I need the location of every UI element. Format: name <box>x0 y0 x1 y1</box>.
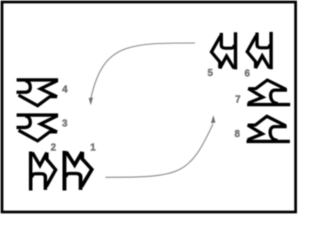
glyph 3 (pointing down) <box>16 115 58 141</box>
svg-text:2: 2 <box>51 143 57 154</box>
arrowhead up <box>211 115 216 123</box>
arrow top: from right tail curving down-left <box>91 43 195 98</box>
svg-text:7: 7 <box>235 94 241 105</box>
svg-text:1: 1 <box>90 143 96 154</box>
svg-text:4: 4 <box>62 84 68 95</box>
arrow bottom: from left tail curving up-right <box>106 124 214 177</box>
glyph 2 (pointing right) <box>31 151 56 190</box>
glyph 1 (pointing right) <box>64 151 91 191</box>
glyph 6 (pointing left) <box>247 32 271 69</box>
glyph 7 (pointing up) <box>247 80 290 105</box>
glyph 8 (pointing up) <box>247 116 290 141</box>
arrowhead down <box>89 98 93 106</box>
svg-text:6: 6 <box>244 69 250 80</box>
svg-text:5: 5 <box>207 68 213 79</box>
glyph 5 (pointing left) <box>211 32 235 69</box>
svg-text:8: 8 <box>234 129 240 140</box>
svg-text:3: 3 <box>62 118 68 129</box>
glyph 4 (pointing down) <box>16 80 58 106</box>
